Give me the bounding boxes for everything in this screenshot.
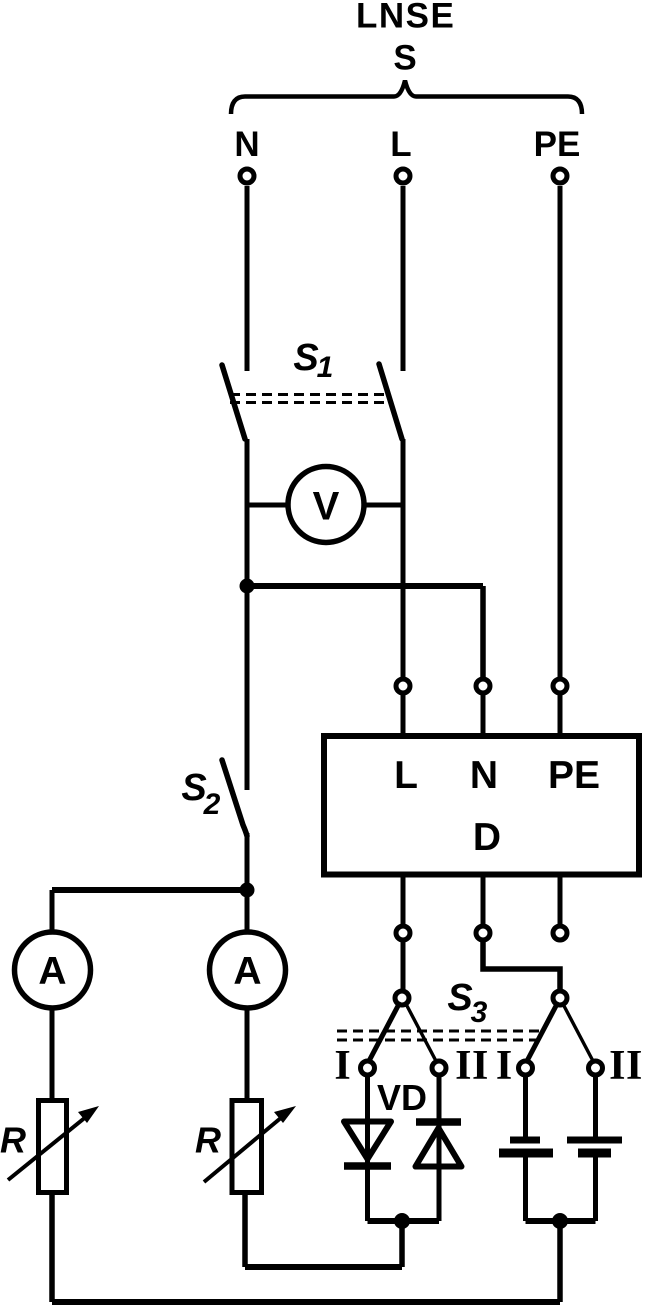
wire N to S2 xyxy=(245,586,250,790)
switch S2 label xyxy=(181,767,220,821)
box input stub L xyxy=(401,693,406,733)
box input circle N xyxy=(476,679,490,693)
svg-text:S: S xyxy=(447,977,472,1019)
box output stub L xyxy=(401,877,406,926)
terminal PE xyxy=(553,169,567,183)
switch S1 pole L blade xyxy=(379,364,402,439)
capacitor C2 xyxy=(567,1140,622,1153)
wire left ammeter to R xyxy=(50,1009,55,1101)
svg-text:PE: PE xyxy=(534,125,581,164)
voltmeter V1 xyxy=(288,467,364,543)
diode VD1 (down) xyxy=(344,1122,391,1167)
wire right ammeter to R xyxy=(245,1009,250,1101)
ammeter A right xyxy=(210,932,286,1008)
wire N output bend to S3 xyxy=(483,940,560,991)
wire N tap drop xyxy=(480,586,486,679)
node junction N-to-box xyxy=(240,579,255,594)
wire L drop xyxy=(401,186,406,371)
svg-text:LNSE: LNSE xyxy=(356,0,455,36)
box input circle PE xyxy=(553,679,567,693)
wire ammeter bus horizontal xyxy=(52,887,247,893)
switch S2 blade xyxy=(222,760,247,836)
svg-text:D: D xyxy=(473,816,501,859)
svg-text:L: L xyxy=(390,125,411,164)
svg-text:A: A xyxy=(233,950,261,993)
capacitor C1 xyxy=(499,1140,553,1153)
svg-text:3: 3 xyxy=(471,996,488,1029)
svg-text:II: II xyxy=(455,1043,489,1089)
device box D xyxy=(324,736,639,875)
voltmeter right lead xyxy=(364,503,403,508)
svg-text:PE: PE xyxy=(548,754,600,797)
wire contact II right to C2 xyxy=(593,1075,598,1140)
wire mid bus xyxy=(245,1264,402,1270)
svg-text:L: L xyxy=(394,754,418,797)
svg-text:I: I xyxy=(496,1043,512,1089)
svg-text:A: A xyxy=(38,950,66,993)
wire L output to S3 xyxy=(401,940,406,991)
voltmeter left lead xyxy=(247,503,288,508)
diode VD2 (up) xyxy=(416,1122,462,1167)
wire capacitor bottom join xyxy=(526,1218,596,1224)
wire PE drop xyxy=(558,186,563,679)
switch S3 left blade II xyxy=(406,1004,436,1061)
svg-text:S: S xyxy=(293,337,318,379)
wire left R to bottom bus xyxy=(49,1195,55,1302)
switch S3 right pole xyxy=(553,991,567,1005)
svg-text:N: N xyxy=(470,754,498,797)
contact II left circle xyxy=(432,1061,446,1075)
contact II right circle xyxy=(589,1061,603,1075)
wire contact II through diode branch xyxy=(437,1075,442,1221)
switch S3 left blade I xyxy=(369,1004,399,1061)
svg-text:N: N xyxy=(234,125,259,164)
switch S3 right blade II xyxy=(563,1004,593,1061)
switch S3 left pole xyxy=(395,991,409,1005)
wire S2 to junction xyxy=(245,833,250,932)
wire capacitor junction down xyxy=(557,1221,563,1302)
terminal L xyxy=(396,169,410,183)
box output stub PE xyxy=(558,877,563,926)
terminal N xyxy=(240,169,254,183)
box input stub PE xyxy=(558,693,563,733)
wire VD bottom join xyxy=(368,1218,440,1224)
node VD junction xyxy=(394,1213,410,1229)
svg-text:1: 1 xyxy=(317,351,334,384)
switch S1 coupling dashes xyxy=(230,395,386,403)
resistor R left xyxy=(8,1101,99,1193)
svg-text:V: V xyxy=(313,485,340,529)
switch S1 pole N blade xyxy=(222,365,245,439)
switch S3 right blade I xyxy=(527,1004,557,1061)
box output stub N xyxy=(481,877,486,926)
wire N tap horizontal xyxy=(247,583,483,589)
contact I right circle xyxy=(519,1061,533,1075)
svg-text:VD: VD xyxy=(377,1077,427,1118)
switch S1 label xyxy=(293,337,333,384)
svg-text:S: S xyxy=(393,39,416,78)
box output circle N xyxy=(476,926,490,940)
wire VD junction down xyxy=(399,1221,405,1267)
wire N drop xyxy=(245,186,250,371)
contact I left circle xyxy=(361,1061,375,1075)
resistor R right xyxy=(204,1101,296,1193)
wire C1 down xyxy=(523,1153,528,1221)
switch S3 label xyxy=(447,977,487,1029)
wire contact I through diode branch xyxy=(365,1075,370,1221)
box input stub N xyxy=(481,693,486,733)
svg-text:II: II xyxy=(609,1043,643,1089)
wire C2 down xyxy=(593,1153,598,1221)
ammeter A left xyxy=(15,932,91,1008)
wire bottom bus xyxy=(52,1299,560,1305)
wire N below S1 xyxy=(245,439,250,586)
brace xyxy=(231,81,582,115)
box output circle PE xyxy=(553,926,567,940)
wire L below S1 xyxy=(401,439,406,679)
wire right R down xyxy=(242,1195,248,1267)
box output circle L xyxy=(396,926,410,940)
svg-text:I: I xyxy=(334,1043,350,1089)
box input circle L xyxy=(396,679,410,693)
svg-text:R: R xyxy=(0,1120,26,1161)
wire left branch drop xyxy=(50,890,55,932)
node junction ammeter bus xyxy=(240,883,255,898)
svg-text:R: R xyxy=(195,1120,221,1161)
switch S3 coupling dashes xyxy=(337,1031,540,1040)
svg-text:2: 2 xyxy=(203,788,221,821)
wire contact I right to C1 xyxy=(523,1075,528,1140)
node capacitor junction xyxy=(552,1213,568,1229)
